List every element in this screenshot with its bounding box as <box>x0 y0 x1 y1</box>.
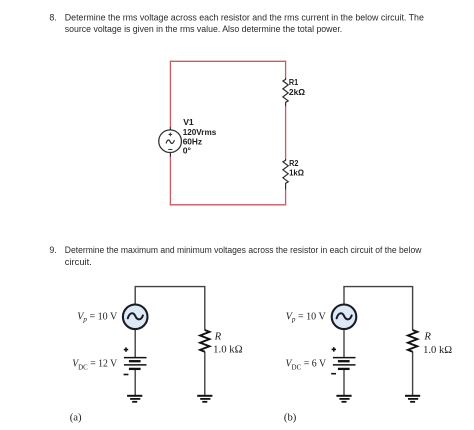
svg-text:circuit.: circuit. <box>65 257 92 267</box>
battery VDC (b) <box>333 358 356 369</box>
svg-text:(b): (b) <box>284 412 297 424</box>
wire: left side lower segment <box>169 156 171 205</box>
svg-text:R: R <box>423 331 431 343</box>
svg-text:R: R <box>214 331 222 343</box>
svg-text:Vp = 10 V: Vp = 10 V <box>286 310 326 323</box>
AC source V1 <box>159 127 182 157</box>
resistor R (a) <box>200 330 209 352</box>
svg-text:VDC = 6 V: VDC = 6 V <box>286 358 327 372</box>
svg-text:9.: 9. <box>49 245 56 255</box>
battery plus sign (b) <box>332 347 336 351</box>
svg-text:1.0 kΩ: 1.0 kΩ <box>423 344 452 356</box>
svg-text:8.: 8. <box>49 12 56 22</box>
wire: left side upper segment <box>169 61 171 128</box>
svg-text:2kΩ: 2kΩ <box>289 87 305 97</box>
resistor R (b) <box>408 330 417 352</box>
battery plus sign (a) <box>124 347 128 351</box>
wire: (b) battery to ground <box>343 369 345 396</box>
wire: (b) resistor to ground <box>412 352 414 396</box>
ground (b) resistor branch <box>405 396 420 402</box>
AC source (b) <box>332 305 357 330</box>
wire: (a) resistor to ground <box>204 352 206 396</box>
ground (a) battery branch <box>127 396 142 402</box>
wire: (a) source bottom to battery <box>134 329 136 358</box>
svg-text:R1: R1 <box>289 77 298 87</box>
wire: top side of red loop <box>170 60 285 62</box>
svg-text:1kΩ: 1kΩ <box>289 167 304 177</box>
resistor R1 <box>283 78 288 106</box>
wire: (b) source bottom to battery <box>343 329 345 358</box>
svg-text:1.0 kΩ: 1.0 kΩ <box>213 343 242 355</box>
svg-text:(a): (a) <box>70 412 82 424</box>
svg-text:V1: V1 <box>183 117 194 127</box>
battery VDC (a) <box>124 358 147 369</box>
ground (b) battery branch <box>336 396 351 402</box>
wire: (a) battery to ground <box>134 369 136 396</box>
svg-text:source voltage is given in the: source voltage is given in the rms value… <box>65 24 342 34</box>
battery minus sign (b) <box>331 373 336 375</box>
svg-text:120Vrms: 120Vrms <box>183 127 217 137</box>
wire: (b) top loop from source to resistor <box>344 287 413 331</box>
wire: right side middle segment <box>285 106 287 159</box>
ground (a) resistor branch <box>197 396 212 402</box>
svg-text:Determine the maximum and mini: Determine the maximum and minimum voltag… <box>65 245 422 255</box>
svg-text:Vp = 10 V: Vp = 10 V <box>77 310 117 323</box>
wire: bottom side of red loop <box>170 204 286 206</box>
svg-text:0°: 0° <box>183 146 192 156</box>
svg-text:Determine the rms voltage acro: Determine the rms voltage across each re… <box>65 12 424 22</box>
wire: right side lower segment <box>285 190 287 206</box>
AC source (a) <box>123 305 148 330</box>
resistor R2 <box>283 159 288 190</box>
svg-text:VDC = 12 V: VDC = 12 V <box>72 358 117 372</box>
wire: right side upper segment <box>285 61 287 78</box>
battery minus sign (a) <box>124 374 129 376</box>
wire: (a) top loop from source to resistor <box>135 287 205 331</box>
